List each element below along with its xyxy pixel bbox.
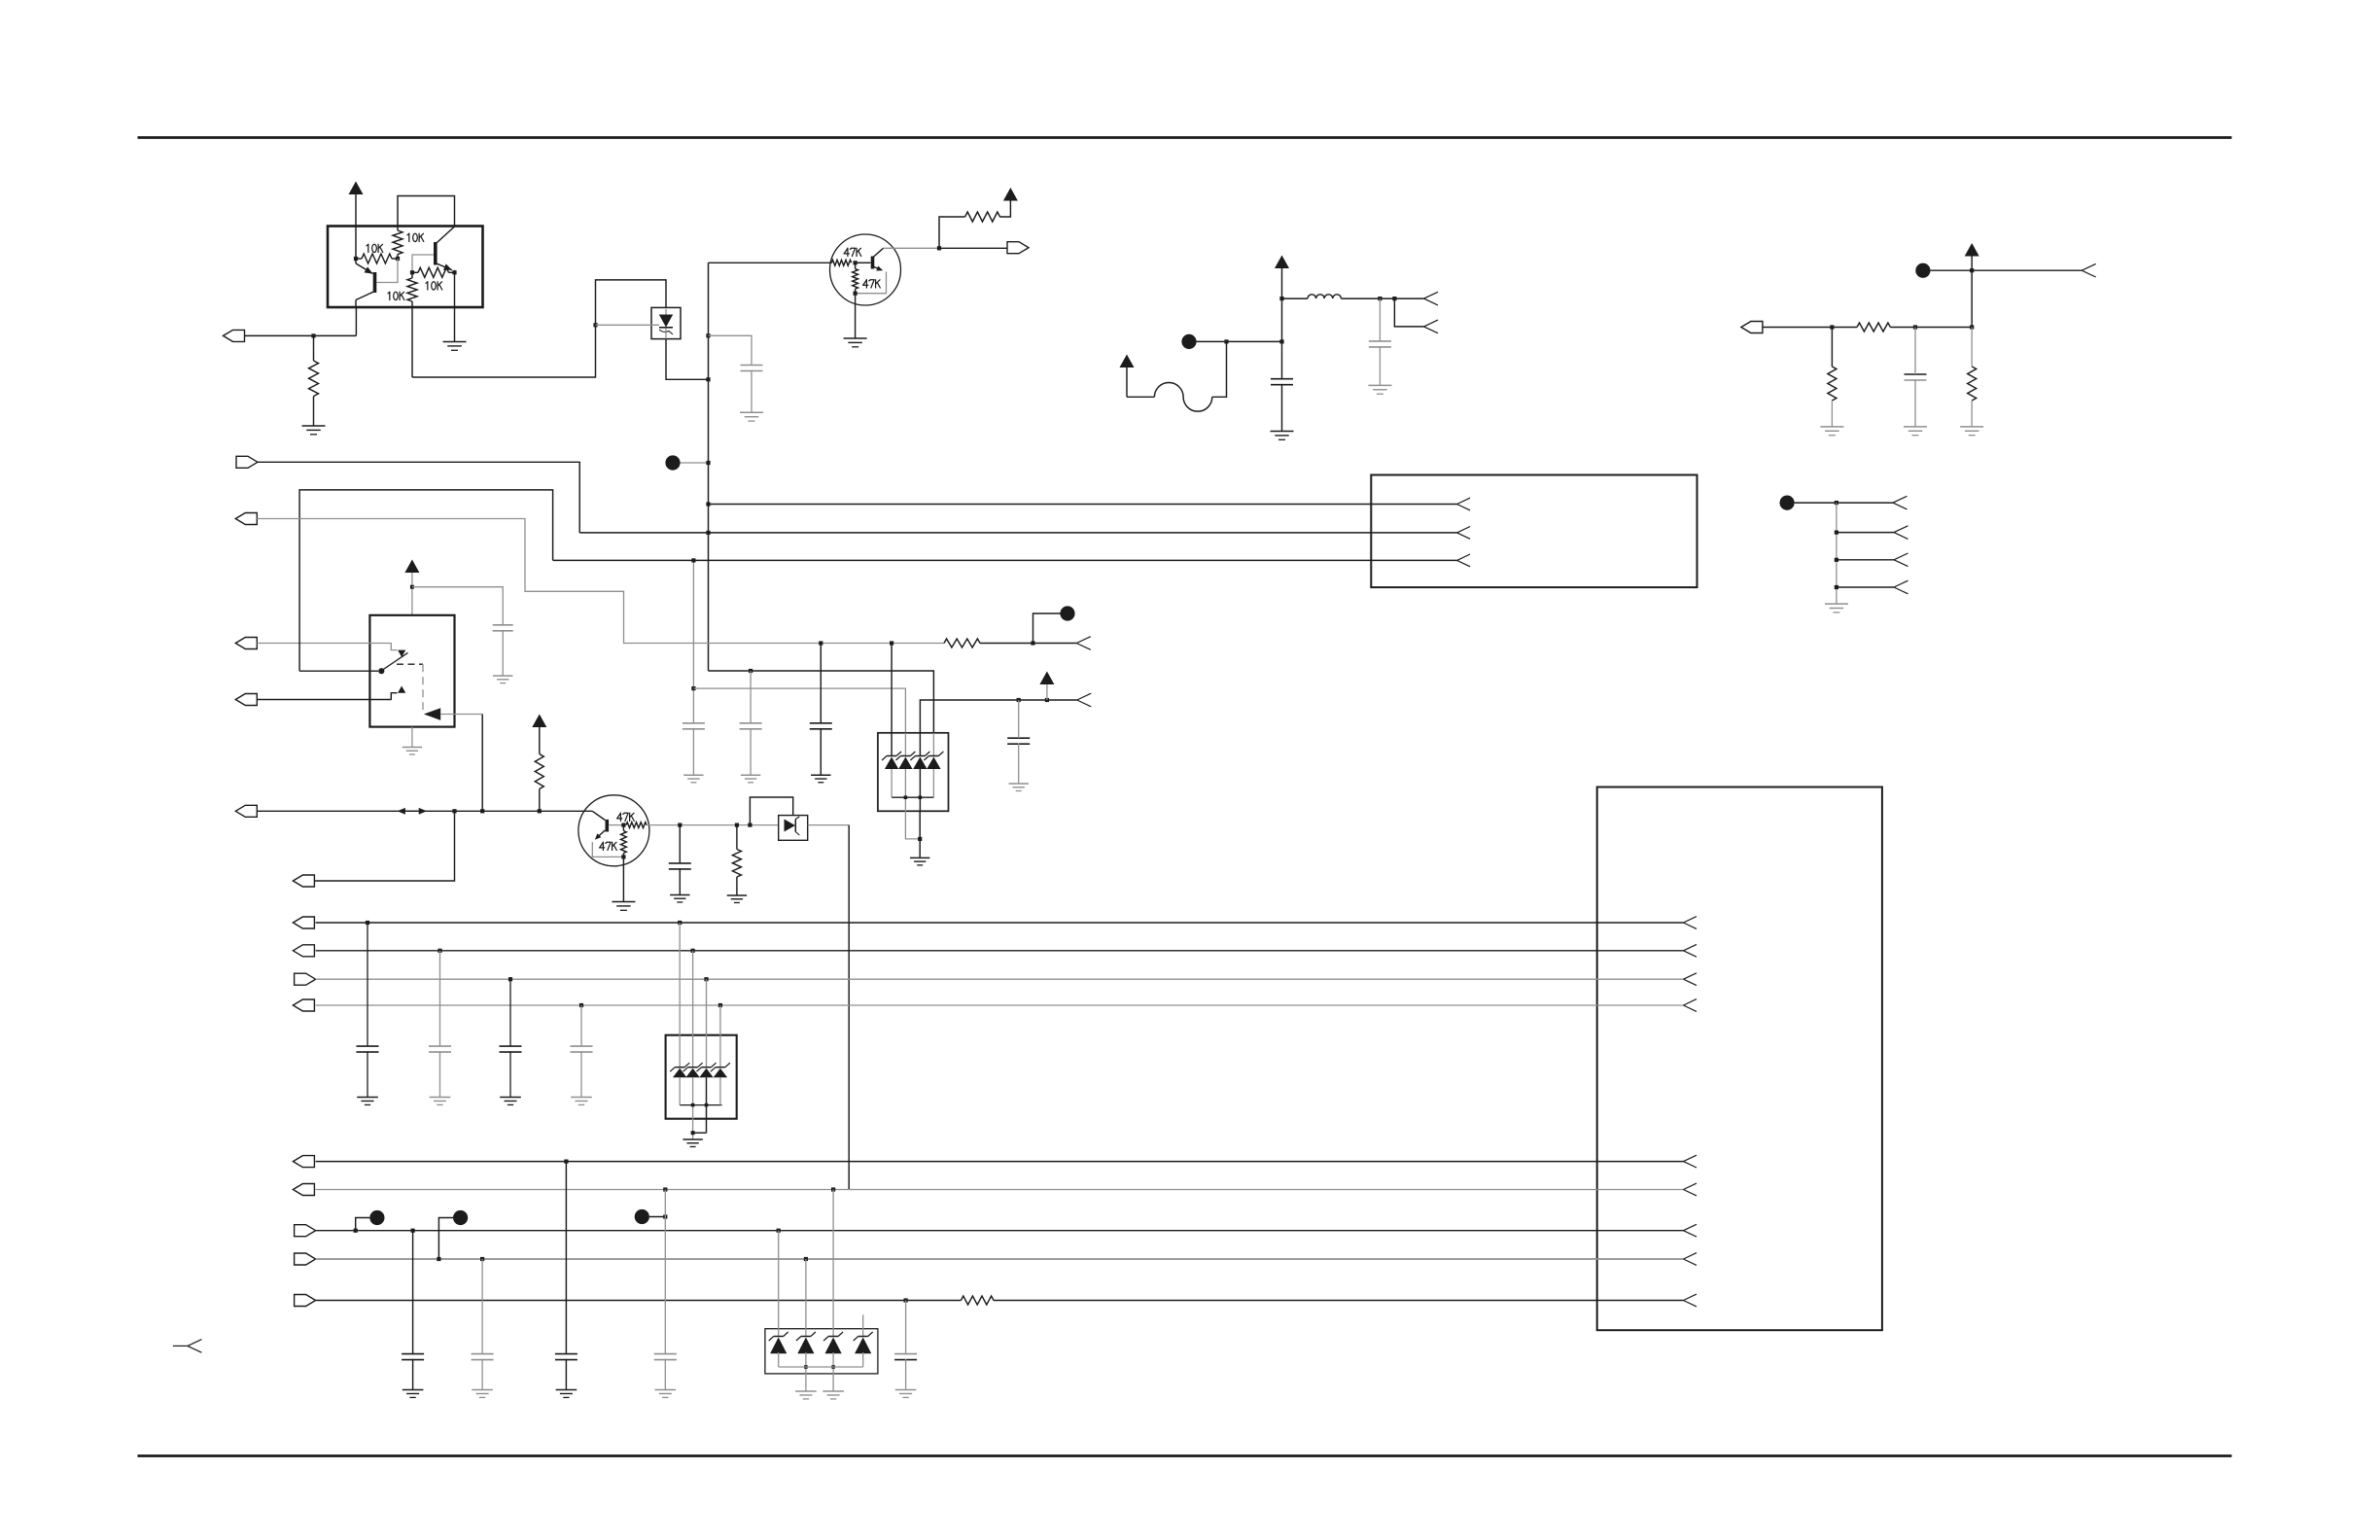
wire node H link [649, 1216, 665, 1218]
node U6 pin2 row [691, 949, 695, 953]
wire z1 to zener pin2 [693, 688, 905, 733]
chevron P8 [1076, 637, 1091, 644]
connector J4 [236, 456, 258, 468]
zener array U4 box [878, 733, 949, 812]
wire J1 to Q1 collector [245, 334, 357, 336]
node CB1-row [411, 1229, 415, 1233]
wire U8 rail [779, 1366, 863, 1368]
wire C13 leads [509, 979, 511, 1046]
wire U4 to ground [919, 811, 921, 857]
ground GND9 [1960, 426, 1983, 428]
wire C9 leads [820, 644, 822, 723]
transistor Q2 emitter [436, 263, 452, 270]
connector J15 [293, 1184, 314, 1196]
resistor R2 10K [397, 227, 399, 231]
zener U6 rail [680, 1104, 721, 1106]
power symbol VCC7 [1039, 672, 1054, 685]
wire U8 pin2 [805, 1259, 807, 1337]
wire pivot staircase [299, 490, 552, 671]
resistor R17 [961, 1296, 994, 1305]
ground GND16 [811, 774, 830, 776]
wire D branch2 [1837, 532, 1894, 534]
zener Z5 [675, 1067, 684, 1068]
node U8 rail-2 [804, 1365, 808, 1369]
node D-sq1 [1835, 501, 1838, 505]
zener Z7 [702, 1067, 712, 1068]
node z2-bus [749, 669, 752, 673]
zener array U8 box [765, 1329, 878, 1374]
wire U1 to U2 route [412, 325, 596, 377]
wire C3 lower lead [1281, 384, 1283, 431]
wire VCC6 stem [411, 573, 413, 615]
pin U7-3 [1684, 973, 1697, 979]
wire U8 pin1 [778, 1231, 780, 1337]
wire bus to Q3 [709, 262, 832, 263]
connector J14 [293, 1156, 314, 1168]
wire R15 stub [622, 825, 624, 831]
resistor R4 10K [407, 278, 417, 301]
ground GND10 [1825, 603, 1848, 605]
node z1-row [691, 558, 695, 562]
resistor R11 [1968, 367, 1977, 401]
node E big dot [1060, 606, 1074, 620]
node U8 pin2 row [804, 1257, 808, 1261]
wire C7 lower lead [692, 728, 694, 775]
node B-sq2 [1279, 339, 1283, 343]
node J3-b [1913, 325, 1917, 329]
transistor Q1 collector [356, 292, 375, 300]
capacitor C13 [500, 1045, 522, 1047]
ground GND28 [556, 1389, 577, 1391]
capacitor C18 [654, 1353, 677, 1355]
wire R9 to bus [1890, 327, 1972, 329]
connector J16 [295, 1225, 316, 1237]
wire U8 pin4 stub [862, 1314, 864, 1337]
resistor R12 [944, 639, 980, 647]
pin U7-9 [1684, 1294, 1697, 1300]
wire U5 top loop [750, 797, 792, 825]
wire R12 left [892, 643, 944, 645]
wire U2 top loop [596, 280, 667, 325]
connector J11 [293, 945, 314, 957]
wire Z3 tail [919, 769, 921, 811]
node U6 pin3 row [704, 977, 708, 981]
wire R2 bottom stub [397, 255, 399, 260]
wire U6 pin2 [692, 951, 694, 1067]
wire R7 stub [855, 262, 857, 268]
power symbol VCC6 [404, 560, 419, 574]
node J8-a [452, 809, 456, 813]
connector J17 [295, 1253, 316, 1265]
IC U3 box [1371, 475, 1697, 588]
wire VCC7 stem [1046, 684, 1048, 700]
wire VCC5 stem [1971, 257, 1973, 271]
node U6 rail-2 [691, 1103, 695, 1107]
node D-sq2 [1835, 531, 1838, 535]
ground GND4 [844, 337, 867, 339]
label R3 10K [426, 282, 428, 284]
inductor L1 [1308, 295, 1341, 298]
node U1-d [452, 270, 456, 274]
node J3-c [1970, 325, 1974, 329]
wire VCC1 stem [355, 194, 357, 259]
wire Q3 base [856, 262, 871, 263]
wire R5 bottom lead [313, 397, 315, 426]
node R12-b [1031, 641, 1034, 645]
wire Z10 tail [805, 1352, 807, 1391]
node bus-cap1 [706, 333, 710, 337]
wire J9 riser [314, 811, 454, 881]
ground GND5 [1368, 384, 1391, 386]
node z3-row [819, 641, 822, 645]
transistor Q4 base bar [605, 820, 609, 832]
zener Z6 [688, 1067, 698, 1068]
ground GND14 [683, 774, 703, 776]
capacitor C8 [740, 722, 762, 724]
resistor R9 [1857, 323, 1890, 332]
ground GND23 [500, 1097, 521, 1099]
capacitor C12 [429, 1045, 451, 1047]
zener Z2 [900, 755, 910, 757]
diode U5 box [779, 816, 808, 841]
node J1-R5 [311, 333, 315, 337]
wire Q2 emitter to ground [454, 272, 456, 341]
node C-sq [1970, 268, 1974, 272]
chevron P2 [1424, 320, 1439, 327]
wire J3 to R9 [1763, 327, 1857, 329]
connector J6 [235, 694, 257, 706]
node N-opto [593, 323, 597, 327]
node C13-row [508, 977, 512, 981]
node H big dot [635, 1209, 649, 1224]
dual-transistor pack U1 box [328, 227, 483, 308]
wire C1 lower lead [751, 370, 752, 412]
wire Z2 tail [904, 769, 906, 811]
label R15 47K [602, 842, 604, 850]
pin U7-5 [1684, 1155, 1697, 1161]
wire J5 to K1 contact [257, 643, 391, 645]
wire Q4 ground stem [622, 857, 624, 901]
ground GND13 [1009, 783, 1029, 785]
wire row9 right [994, 1300, 1684, 1302]
chevron P9 [1077, 693, 1092, 700]
chevron P4 [1893, 496, 1907, 503]
transistor Q4 emitter [597, 830, 606, 838]
label R4 10K [388, 292, 390, 294]
node Q4 base [621, 823, 625, 827]
ground GND21 [357, 1097, 378, 1099]
wire C4 leads [1914, 328, 1916, 375]
wire row8 [316, 1258, 1684, 1260]
wire Q2 base link [412, 255, 434, 272]
node Q4-res [735, 823, 739, 827]
chevron P1 [1424, 292, 1439, 298]
node Q3 base [854, 261, 857, 264]
power symbol VCC5 [1965, 243, 1979, 257]
pin U3-3 [1457, 554, 1471, 560]
zener Z1 [887, 755, 896, 757]
ground GND8 [1904, 426, 1927, 428]
wire cap-z1 riser [692, 560, 694, 722]
capacitor C10 [669, 862, 691, 864]
transistor Q4 collector [592, 811, 605, 820]
node Q4-cap [678, 823, 682, 827]
node L1-c [1392, 297, 1396, 300]
node U8 pin3 row [831, 1187, 835, 1191]
wire wave link [1127, 396, 1154, 398]
node U6 join [691, 1131, 695, 1135]
wire C16 leads [481, 1259, 483, 1354]
wire node D link [1795, 502, 1893, 504]
wire VCC3 bus down [1281, 298, 1283, 379]
capacitor C19 [894, 1353, 917, 1355]
pin U3-2 [1457, 527, 1471, 533]
transistor Q1 base bar [373, 272, 377, 293]
wire U4 pin4 internal [932, 733, 934, 755]
wire R5 top lead [313, 335, 315, 361]
transistor Q4 outline [578, 795, 649, 866]
node C11-row [366, 921, 369, 925]
wire VCC4 stem [1126, 367, 1128, 397]
wire C5 lower lead [502, 630, 504, 676]
ground GND17 [910, 857, 929, 858]
wire C15 leads [412, 1231, 414, 1354]
wire K1 pivot net [299, 670, 378, 672]
ground GND27 [472, 1389, 493, 1391]
connector J2 [1007, 242, 1029, 254]
wire C18 leads [664, 1190, 666, 1354]
chevron P6 [1894, 553, 1908, 560]
wire VCC3 stem [1281, 268, 1283, 298]
wire R3 left stub [412, 271, 418, 273]
contact K1 lower [391, 693, 397, 700]
diode D3 in U5 [785, 820, 796, 832]
wire R4 down out of box [411, 301, 413, 377]
wire R10 leads [1831, 328, 1833, 367]
wire node A link [681, 462, 709, 464]
node bus-A [706, 461, 710, 465]
resistor R15 47K [621, 831, 627, 854]
node Q3 out [937, 246, 941, 250]
wire Z11 tail [832, 1352, 834, 1391]
wire C8 leads [750, 671, 752, 723]
wire U3 pin3 net [553, 559, 1457, 561]
wire U4 pin1 [891, 644, 892, 756]
node J8-b [480, 809, 484, 813]
capacitor C7 [682, 722, 705, 724]
opto diode U2 anode wire [596, 324, 660, 326]
wire C11 leads [367, 923, 368, 1046]
wire Z7 tail [706, 1077, 708, 1133]
node D-sq3 [1835, 558, 1838, 562]
wire U2 to bus [666, 339, 709, 380]
node J3-a [1830, 325, 1834, 329]
wire U3 pin2 net [579, 532, 1456, 534]
transistor Q3 base bar [871, 257, 875, 269]
wire Z12 tail [862, 1352, 864, 1367]
connector J3 [1741, 322, 1763, 333]
node F big dot [369, 1210, 384, 1225]
ground GND26 [402, 1389, 424, 1391]
ground GND20 [727, 894, 747, 896]
wire U4 pin3 internal [919, 733, 921, 755]
node U1-a [354, 257, 358, 261]
linkage K1 dashed [397, 663, 423, 665]
wire Q4 base [609, 824, 623, 826]
node U8 pin1 row [777, 1229, 781, 1233]
pin U7-7 [1684, 1224, 1697, 1230]
capacitor C6 [1007, 737, 1030, 739]
connector J7 [235, 513, 257, 525]
capacitor C14 [571, 1045, 593, 1047]
power symbol VCC4 [1120, 355, 1135, 368]
node K1 vcc [410, 585, 414, 589]
node U4 rail-3 [919, 795, 923, 799]
zener Z4 [928, 755, 938, 757]
ground GND32 [895, 1389, 917, 1391]
node U1-c [410, 270, 414, 274]
transistor Q1 emitter [356, 263, 373, 274]
capacitor C9 [810, 722, 832, 724]
wire R12 right [980, 643, 1076, 645]
node A big dot [665, 455, 680, 470]
wire D2 out [440, 714, 482, 716]
ground GND18 [612, 901, 635, 903]
pin U7-1 [1684, 917, 1697, 923]
ground GND6 [1271, 431, 1294, 433]
symbol double-arrow [402, 810, 423, 812]
wire L1 right lead [1341, 297, 1423, 299]
transistor Q3 outline [830, 234, 901, 305]
wire right bus [1971, 270, 1973, 327]
connector J1 [224, 330, 245, 341]
transistor Q3 emitter [874, 267, 881, 270]
wire Q1 base link [377, 259, 399, 283]
wire Z6 tail [692, 1077, 694, 1133]
wire R3 right stub [449, 271, 455, 273]
wire U4 pin2 internal [904, 733, 906, 755]
node CB2-row [480, 1257, 484, 1261]
node U6 rail-3 [705, 1103, 709, 1107]
capacitor C3 [1271, 378, 1293, 380]
zener array U6 box [666, 1035, 737, 1119]
wire C10 leads [679, 825, 681, 863]
wire U6 pin1 [679, 923, 681, 1067]
node B big dot [1181, 334, 1196, 349]
zener Z11 [828, 1336, 838, 1338]
wire row4 [316, 1004, 1684, 1006]
node F-sq1 [1017, 698, 1021, 702]
power symbol VCC3 [1275, 256, 1289, 269]
wire U2 internal [665, 309, 667, 315]
zener Z8 [716, 1067, 725, 1068]
wire U5 long drop [848, 825, 850, 1190]
zener Z10 [801, 1336, 811, 1338]
node D big dot [1780, 495, 1795, 509]
wire node B link [1197, 340, 1282, 342]
ground GND29 [655, 1389, 677, 1391]
node C big dot [1915, 263, 1930, 278]
pin U7-8 [1684, 1253, 1697, 1259]
ground GND7 [1820, 426, 1843, 428]
wire row2 [316, 950, 1684, 952]
resistor R10 [1828, 367, 1837, 401]
node U6 pin4 row [718, 1003, 722, 1007]
wire row6 [316, 1189, 1684, 1191]
ground GND11 [493, 675, 512, 677]
chevron P10 [173, 1345, 188, 1347]
connector J9 [293, 875, 314, 887]
capacitor C15 [402, 1353, 424, 1355]
pin U7-4 [1684, 999, 1697, 1005]
capacitor C11 [357, 1045, 379, 1047]
wire node C link [1931, 269, 2082, 271]
capacitor C4 [1905, 373, 1927, 375]
node CB4-row [663, 1187, 667, 1191]
capacitor C17 [555, 1353, 577, 1355]
contact K1 upper [391, 643, 397, 649]
chevron P5 [1894, 526, 1908, 533]
wire U6 below join [693, 1132, 707, 1134]
node bus-p2 [706, 531, 710, 535]
wire J4 route [258, 462, 579, 533]
wire bus to C1 cap [709, 335, 752, 365]
wire U3 pin1 net [709, 504, 1457, 506]
zener U4 rail [892, 796, 933, 798]
wire node G link [438, 1218, 453, 1260]
ground GND30 [795, 1390, 817, 1392]
wire R4 top stub [411, 272, 413, 278]
ground GND15 [741, 774, 760, 776]
power symbol VCC2 [1003, 188, 1018, 201]
wire R1 left stub [356, 258, 362, 260]
resistor R16 [732, 850, 741, 878]
wire L1 left lead [1282, 297, 1309, 299]
wire L1-c branch [1394, 298, 1423, 327]
wire bus to zener pin4 [709, 671, 934, 733]
relay K1 box [369, 615, 454, 727]
zener Z3 [915, 755, 925, 757]
ground GND22 [430, 1097, 451, 1099]
node bus-opto [706, 377, 710, 381]
IC U7 box [1597, 787, 1882, 1331]
wire R8 to VCC2 [1000, 201, 1011, 218]
power symbol VCC1 [349, 182, 364, 195]
node z3cap-row [904, 1298, 908, 1302]
wire vcc-chev net [920, 700, 1076, 733]
pin U3-1 [1457, 498, 1471, 504]
wire L1-b to C2 cap [1379, 298, 1381, 341]
node z1-mid [691, 686, 695, 690]
wire J7 staircase [257, 519, 892, 644]
ground GND2 [302, 425, 326, 427]
diode D1 in U2 [659, 315, 673, 328]
capacitor C16 [472, 1353, 494, 1355]
node B-sq1 [1224, 339, 1228, 343]
wire D branch3 [1837, 559, 1894, 561]
node H-sq [663, 1214, 667, 1218]
pin U7-2 [1684, 944, 1697, 950]
wire J8 bus [257, 810, 592, 812]
zener Z9 [774, 1336, 784, 1338]
transistor Q2 collector [436, 227, 455, 244]
wire R16 leads [736, 825, 738, 850]
wire R11 leads [1971, 328, 1973, 367]
contact K1 pivot [378, 668, 384, 674]
node U4 rail-2 [904, 795, 908, 799]
resistor R5 [309, 361, 319, 397]
zener Z12 [858, 1336, 868, 1338]
